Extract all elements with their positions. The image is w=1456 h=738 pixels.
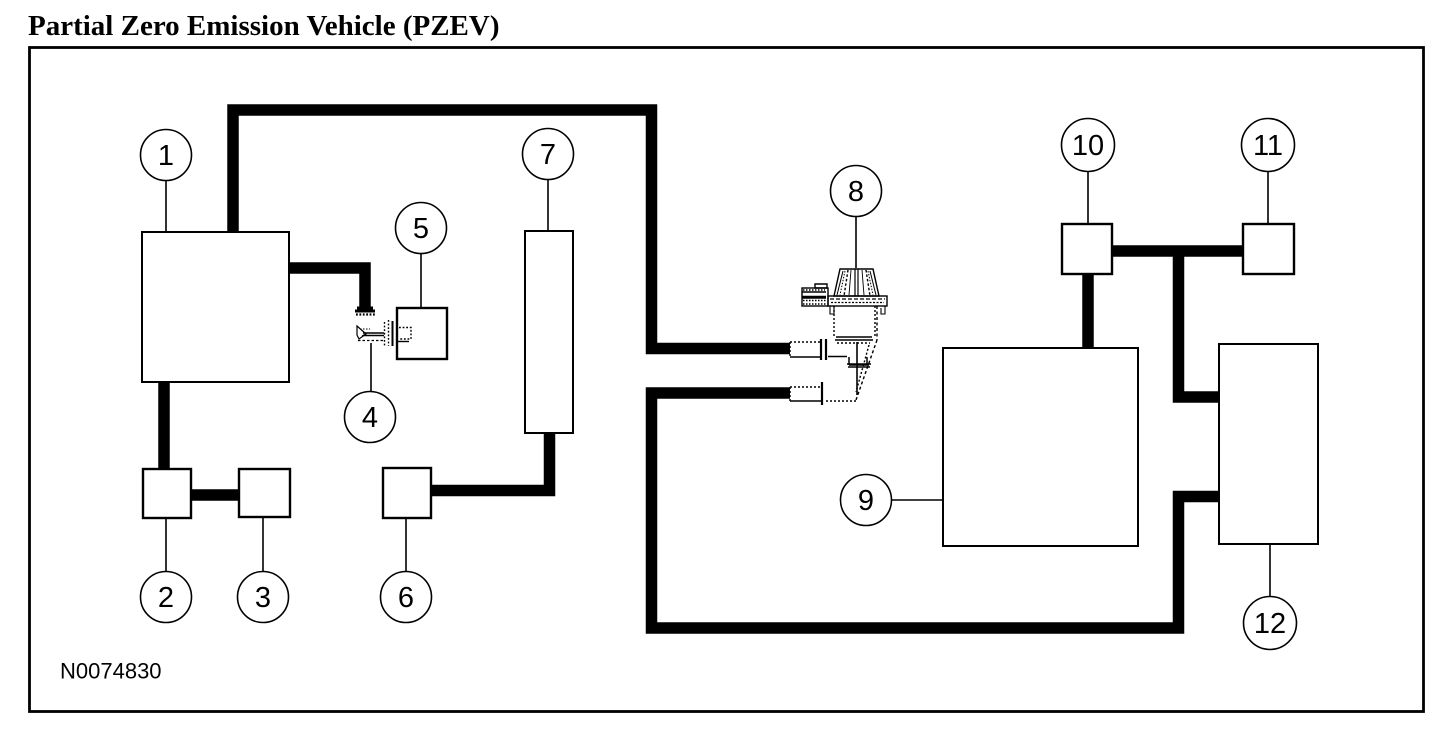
- box 6: [383, 468, 431, 518]
- box 3: [239, 469, 290, 517]
- washer stack: [385, 320, 389, 346]
- hose: box2 to box3: [191, 489, 239, 501]
- callout line 2: [165, 518, 167, 572]
- box 11: [1243, 224, 1294, 274]
- callout line 9: [891, 499, 943, 501]
- svg-text:11: 11: [1253, 130, 1283, 162]
- hose: box1 right to valve4: [289, 268, 365, 308]
- hose: canister vent tube (top long pipe from box1 top to valve8 upper port): [233, 110, 790, 349]
- valve 8 sketch (canister purge valve): [790, 269, 887, 405]
- inner cup under body: [849, 357, 869, 365]
- svg-text:7: 7: [540, 139, 556, 171]
- flange ear tabs: [830, 306, 885, 314]
- callout line 7: [547, 179, 549, 231]
- svg-text:3: 3: [255, 582, 271, 614]
- svg-text:8: 8: [848, 176, 864, 208]
- callout circle 12: [1244, 597, 1297, 650]
- svg-text:N0074830: N0074830: [60, 659, 162, 684]
- lower port barrel: [790, 386, 821, 388]
- nozzle flap: [357, 326, 366, 339]
- hose: valve8 lower port, down, along bottom, up to box12 lower port: [652, 393, 1220, 628]
- needle: [856, 342, 858, 395]
- callout circle 7: [523, 129, 574, 180]
- upper port barrel: [790, 341, 820, 343]
- box 9 (canister): [943, 348, 1138, 546]
- svg-text:4: 4: [362, 402, 378, 434]
- component 7 (tube/filter tall rect): [525, 231, 573, 433]
- hose: box10 to box11: [1112, 245, 1243, 257]
- box 5 (solenoid): [397, 308, 447, 359]
- valve 4 sketch (check valve between hose cap and box5): [355, 308, 411, 346]
- nozzle needle: [363, 333, 384, 336]
- hose: box1 bottom to box2: [158, 382, 170, 469]
- box 10: [1062, 224, 1112, 274]
- callout circle 11: [1242, 119, 1295, 172]
- box 1 (fuel tank): [142, 232, 289, 382]
- hose end cap: [355, 308, 375, 311]
- flange: [828, 296, 887, 306]
- callout line 11: [1267, 172, 1269, 224]
- inside box5 details: [399, 328, 411, 340]
- callout line 5: [420, 253, 422, 308]
- callout circle 2: [141, 572, 192, 623]
- callout circle 6: [381, 572, 432, 623]
- callout circle 9: [841, 475, 892, 526]
- callout circle 1: [141, 130, 192, 181]
- callout line 4: [370, 343, 372, 392]
- callout circle 10: [1062, 119, 1115, 172]
- svg-text:6: 6: [398, 582, 414, 614]
- callout circle 3: [238, 572, 289, 623]
- hose: T junction down to box12 upper port: [1179, 250, 1220, 397]
- svg-text:Partial Zero Emission Vehicle: Partial Zero Emission Vehicle (PZEV): [28, 10, 500, 42]
- svg-text:1: 1: [158, 140, 174, 172]
- hose: box6 to filter7 bottom: [432, 433, 550, 491]
- svg-text:2: 2: [158, 582, 174, 614]
- callout line 12: [1269, 544, 1271, 598]
- box 12 (dust separator): [1219, 344, 1318, 544]
- svg-text:9: 9: [858, 485, 874, 517]
- hose: box10 bottom to box9 top: [1082, 274, 1094, 348]
- svg-text:12: 12: [1254, 608, 1286, 640]
- box 2: [143, 469, 191, 518]
- callout line 10: [1087, 172, 1089, 224]
- callout circle 4: [345, 392, 396, 443]
- callout line 8: [855, 216, 857, 268]
- cone (right): [856, 306, 877, 400]
- callout circle 5: [396, 203, 447, 254]
- svg-text:5: 5: [413, 213, 429, 245]
- rubber boot (trapezoid cap): [834, 269, 879, 296]
- body cup: [834, 306, 875, 337]
- callout circle 8: [831, 166, 882, 217]
- svg-text:10: 10: [1072, 130, 1104, 162]
- callout line 3: [262, 517, 264, 572]
- callout line 6: [405, 518, 407, 572]
- electrical connector (left): [815, 284, 827, 288]
- callout line 1: [165, 180, 167, 232]
